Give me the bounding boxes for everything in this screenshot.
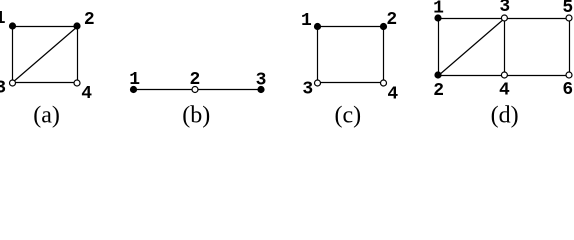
svg-text:4: 4 [499,80,510,100]
svg-text:3: 3 [256,70,267,90]
svg-text:2: 2 [189,70,200,90]
graph (d) vertex 5 (open) [566,15,572,21]
svg-text:5: 5 [562,0,573,18]
svg-text:2: 2 [386,10,397,30]
graph (a) edge 3-4 (bottom) [13,82,78,84]
graph (b) vertex 1 (filled) [130,86,137,93]
graph (d) vertex 3 (open) [501,15,507,21]
svg-text:3: 3 [499,0,510,17]
graph (d) vertex 1 (filled) [434,14,441,21]
graph (d) edge 5-6 (right) [569,19,571,76]
graph (c) vertex 4 (open) [381,80,387,86]
graph (a) vertex 1 (filled) [9,22,16,29]
graph (d) edge 3-4 (middle vertical) [504,19,506,76]
svg-text:4: 4 [387,84,398,104]
graph (a) edge 3-2 (diagonal) [13,27,78,83]
svg-text:3: 3 [0,78,6,98]
graph (c) edge 1-2 (top) [318,26,384,28]
graph (b) vertex 2 (open) [192,87,198,93]
graph (d) edge 1-2 (left) [438,19,440,76]
graph (c) vertex 1 (filled) [314,23,321,30]
graph (b) edge 1-2-3 (path) [134,89,262,91]
svg-text:1: 1 [129,70,140,90]
svg-text:3: 3 [302,80,313,100]
graph (a) vertex 4 (open) [74,80,80,86]
svg-text:6: 6 [562,80,573,100]
svg-text:(a): (a) [33,102,60,128]
graph (c) edge 1-3 (left) [317,27,319,83]
graph (a) edge 2-4 (right) [77,27,79,83]
svg-text:(b): (b) [182,102,210,128]
graph (d) edge 2-3 (diagonal) [439,19,505,76]
graph (c) vertex 2 (filled) [380,23,387,30]
graph (d) vertex 6 (open) [566,72,572,78]
graph (a) vertex 3 (open) [10,80,16,86]
graph (c) vertex 3 (open) [315,80,321,86]
svg-text:(d): (d) [491,102,519,128]
graph (a) edge 1-3 (left) [12,27,14,83]
graph (a) vertex 2 (filled) [73,22,80,29]
graph (c) edge 3-4 (bottom) [318,82,384,84]
svg-text:2: 2 [433,81,444,101]
svg-text:4: 4 [81,84,92,104]
graph (d) edge 2-4-6 (bottom) [439,75,570,77]
svg-text:1: 1 [301,11,312,31]
svg-text:2: 2 [84,10,95,30]
svg-text:(c): (c) [334,102,361,128]
graph (a) edge 1-2 (top) [13,26,78,28]
svg-text:1: 1 [0,9,6,29]
graph (b) vertex 3 (filled) [257,86,264,93]
graph (d) vertex 2 (filled) [434,71,441,78]
svg-text:1: 1 [433,0,444,19]
graph (c) edge 2-4 (right) [383,27,385,83]
graph (d) vertex 4 (open) [501,72,507,78]
graph (d) edge 1-3-5 (top) [439,18,570,20]
